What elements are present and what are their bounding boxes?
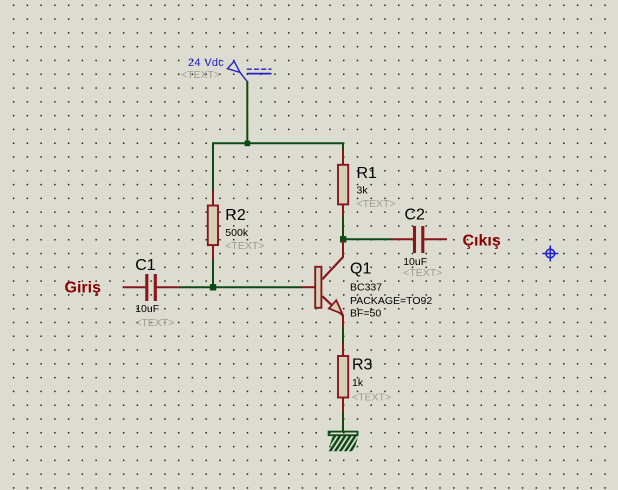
origin marker — [542, 246, 558, 262]
svg-text:C2: C2 — [405, 207, 426, 224]
svg-text:1k: 1k — [352, 377, 364, 389]
svg-text:Q1: Q1 — [350, 261, 371, 278]
wire: input horizontal — [179, 286, 302, 288]
capacitor C2 — [392, 226, 447, 253]
transistor Q1 — [302, 241, 344, 328]
wire: R1 bottom to collector node — [342, 216, 344, 240]
svg-text:R2: R2 — [225, 207, 246, 224]
svg-text:R1: R1 — [357, 165, 378, 182]
capacitor C1 — [123, 274, 180, 301]
svg-text:BC337: BC337 — [350, 282, 382, 294]
svg-text:<TEXT>: <TEXT> — [225, 240, 264, 252]
power terminal 24 Vdc — [227, 61, 271, 81]
svg-text:<TEXT>: <TEXT> — [352, 392, 391, 404]
svg-text:BF=50: BF=50 — [350, 308, 381, 320]
resistor R1 — [338, 150, 348, 217]
svg-text:R3: R3 — [352, 357, 373, 374]
svg-text:Çıkış: Çıkış — [463, 233, 501, 250]
wire: R1 top stub — [342, 142, 344, 150]
svg-text:3k: 3k — [357, 185, 369, 197]
svg-text:<TEXT>: <TEXT> — [357, 198, 396, 210]
resistor R3 — [338, 343, 348, 412]
junction at power/top rail — [245, 141, 251, 147]
resistor R2 — [208, 191, 218, 260]
svg-text:500k: 500k — [225, 227, 249, 239]
svg-text:PACKAGE=TO92: PACKAGE=TO92 — [350, 295, 432, 307]
svg-text:C1: C1 — [135, 257, 156, 274]
wire: left vertical to R2 — [212, 142, 214, 191]
svg-text:<TEXT>: <TEXT> — [403, 267, 442, 279]
wire: collector node to C2 — [344, 238, 393, 240]
wire: power vertical — [246, 81, 248, 143]
svg-text:24 Vdc: 24 Vdc — [188, 57, 224, 69]
ground — [324, 432, 367, 454]
junction at input node — [210, 284, 216, 290]
svg-text:<TEXT>: <TEXT> — [135, 317, 174, 329]
svg-text:10uF: 10uF — [403, 256, 427, 268]
wire: R2 bottom to input node — [212, 260, 214, 289]
svg-text:Giriş: Giriş — [65, 280, 102, 297]
wire: emitter to R3 — [342, 327, 344, 344]
svg-text:<TEXT>: <TEXT> — [181, 69, 220, 81]
svg-text:10uF: 10uF — [135, 303, 159, 315]
wire: R3 bottom to ground — [342, 412, 344, 432]
wire: top horizontal rail — [213, 142, 343, 144]
junction at collector node — [340, 236, 346, 242]
